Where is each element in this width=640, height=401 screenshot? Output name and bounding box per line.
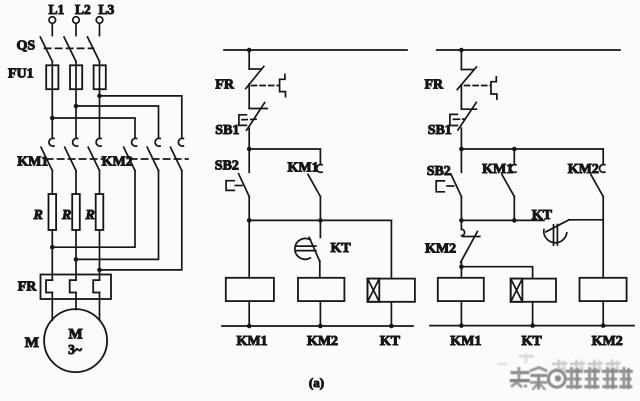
label KM1 aux contact (a) xyxy=(288,161,319,176)
label R (R3) xyxy=(85,208,95,223)
coil KT (b) with delay X box xyxy=(511,279,556,302)
wire FR to motor lead 1 xyxy=(51,293,53,321)
svg-text:SB2: SB2 xyxy=(427,164,451,179)
KM1 linkage dashed line xyxy=(47,158,105,160)
label KM2 NC contact (b) xyxy=(425,242,456,257)
junction node C (b) xyxy=(459,147,464,152)
label KM1 (main contacts) xyxy=(17,155,48,170)
svg-text:R: R xyxy=(61,208,71,223)
wire (b) KM2 NC to node E xyxy=(460,262,462,267)
label FR (thermal relay) xyxy=(18,280,38,295)
wire L2 to QS xyxy=(75,23,77,35)
watermark text (decor) xyxy=(497,353,633,390)
circuit (b) bottom rail xyxy=(430,325,634,327)
svg-text:KT: KT xyxy=(532,208,553,223)
SB2 NO pushbutton (b) xyxy=(436,174,461,197)
svg-text:SB1: SB1 xyxy=(428,123,452,138)
svg-text:SB2: SB2 xyxy=(215,159,239,174)
svg-text:KM1: KM1 xyxy=(482,162,513,177)
svg-text:KM1: KM1 xyxy=(288,161,319,176)
terminal L1 xyxy=(49,17,56,24)
wire (b) node E to KM1 coil xyxy=(460,267,462,278)
junction node D2 (b) xyxy=(512,218,517,223)
svg-text:FR: FR xyxy=(18,280,38,295)
wire (a) node B bus xyxy=(249,219,391,221)
junction (b) rail KM1 xyxy=(459,323,464,328)
wire (a) KT contact to KM2 coil xyxy=(319,261,321,278)
label KM1 coil (a) xyxy=(236,334,267,349)
wire L3 to QS xyxy=(99,23,101,35)
svg-text:KM2: KM2 xyxy=(307,334,338,349)
svg-text:KT: KT xyxy=(521,334,542,349)
wire (b) KM2 branch to coil xyxy=(602,220,604,278)
wire (b) KT coil to rail xyxy=(532,302,534,326)
wire KM1 pole3 to R3 xyxy=(99,171,101,194)
label L1 xyxy=(49,2,65,17)
svg-text:KT: KT xyxy=(380,334,401,349)
svg-text:SB1: SB1 xyxy=(215,123,239,138)
junction R1/KM2 pole4 xyxy=(50,245,55,250)
wire KM1 pole2 to R2 xyxy=(75,171,77,194)
KM1 NO auxiliary contact (b) xyxy=(502,149,516,197)
label KT contact (a) xyxy=(331,241,352,256)
svg-text:KM2: KM2 xyxy=(592,334,623,349)
wire (a) KT coil to rail xyxy=(390,302,392,326)
wire R1 to FR heater 1 xyxy=(51,230,53,280)
wire (b) KM1 coil to rail xyxy=(460,301,462,326)
KT delayed-close contact (a) xyxy=(295,237,320,261)
wire (a) SB1 to node A xyxy=(248,129,250,150)
KT delayed-close contact (b) xyxy=(544,220,569,245)
wire (a) KM1 aux to node B xyxy=(319,197,321,221)
coil KM1 (b) xyxy=(438,278,484,301)
wire feeder L1 to KM2 pole 4 xyxy=(52,118,135,138)
svg-text:KM2: KM2 xyxy=(425,242,456,257)
wire L1 to QS xyxy=(51,23,53,35)
wire KM2 pole5 to node xyxy=(76,171,159,260)
terminal L2 xyxy=(73,17,80,24)
junction (a) top rail xyxy=(247,48,252,53)
wire feeder L3 to KM2 pole 6 xyxy=(100,96,182,138)
label FU1 xyxy=(8,67,34,82)
wire (b) node C down xyxy=(460,149,462,172)
label L2 xyxy=(75,2,91,17)
junction (b) top rail xyxy=(459,48,464,53)
junction L3 feeder xyxy=(97,94,102,99)
wire (b) node D bus to KT contact xyxy=(461,219,544,221)
junction L1 feeder xyxy=(50,116,55,121)
svg-text:FR: FR xyxy=(425,78,445,93)
svg-text:KM1: KM1 xyxy=(236,334,267,349)
fuse FU1 pole 3 xyxy=(94,65,106,89)
contactor KM2 main contact pole 5 xyxy=(147,138,160,170)
SB1 NC pushbutton (b) xyxy=(450,102,477,130)
svg-text:R: R xyxy=(33,208,43,223)
svg-text:KM1: KM1 xyxy=(17,155,48,170)
wire KM2 pole4 to node xyxy=(52,171,135,248)
KM2 linkage dashed line xyxy=(131,158,189,160)
junction R2/KM2 pole5 xyxy=(74,257,79,262)
junction node D (b) xyxy=(459,218,464,223)
wire feeder L2 to KM2 pole 5 xyxy=(76,106,159,138)
label FR contact (a) xyxy=(215,78,235,93)
wire (a) node B2 to KT contact xyxy=(319,220,321,237)
label KM2 coil (a) xyxy=(307,334,338,349)
thermal relay FR heater elements xyxy=(41,275,112,300)
wire (a) node A to KM1 aux xyxy=(249,149,320,164)
wire L1 fuse to KM1 pole 1 xyxy=(51,89,53,138)
FR NC contact (b) xyxy=(457,67,476,90)
junction L2 feeder xyxy=(74,104,79,109)
label KT contact (b) xyxy=(532,208,553,223)
wire (b) SB2 to node D xyxy=(460,197,462,221)
svg-text:QS: QS xyxy=(17,39,36,54)
wire L3 fuse to KM1 pole 3 xyxy=(99,89,101,138)
wire (b) SB1 to node C xyxy=(460,128,462,149)
wire (a) bus to KT coil xyxy=(390,220,392,278)
contactor KM1 main contact pole 1 xyxy=(41,138,54,170)
wire (b) KM1 aux to node D xyxy=(513,197,515,221)
junction (a) rail KM2 xyxy=(318,324,323,329)
wire (a) node A down xyxy=(248,149,250,172)
junction node B2 (a) xyxy=(318,218,323,223)
wire (b) node D to KM2 NC xyxy=(460,220,462,229)
SB1 NC pushbutton (a) xyxy=(239,103,267,131)
wire (b) KM2 coil to rail xyxy=(602,301,604,326)
disconnect switch QS xyxy=(40,37,99,65)
FR NC contact (a) xyxy=(246,66,264,88)
junction (a) rail KT xyxy=(389,324,394,329)
circuit (b) top supply rail xyxy=(437,49,620,51)
contactor KM1 main contact pole 3 xyxy=(88,138,101,170)
junction (a) rail KM1 xyxy=(247,324,252,329)
motor M xyxy=(44,309,107,372)
svg-text:FR: FR xyxy=(215,78,235,93)
junction node E (b) xyxy=(459,264,464,269)
coil KM2 (b) xyxy=(580,278,627,301)
wire (b) KT contact to KM2 branch xyxy=(569,219,603,221)
wire (a) SB2 to node B xyxy=(248,197,250,221)
svg-text:KM2: KM2 xyxy=(568,162,599,177)
FR trip actuator symbol (b) xyxy=(465,77,497,99)
resistor R2 xyxy=(72,194,80,230)
svg-text:M: M xyxy=(25,335,39,351)
wire R3 to FR heater 3 xyxy=(99,230,101,280)
wire (b) rail to FR contact xyxy=(460,50,462,70)
wire KM1 pole1 to R1 xyxy=(51,171,53,194)
contactor KM2 main contact pole 4 xyxy=(124,138,137,170)
label SB2 (a) xyxy=(215,159,239,174)
label KM2 (main contacts) xyxy=(102,155,133,170)
contactor KM1 main contact pole 2 xyxy=(65,138,78,170)
svg-text:FU1: FU1 xyxy=(8,67,34,82)
svg-text:L2: L2 xyxy=(75,2,91,17)
coil KM1 (a) xyxy=(226,220,274,301)
wire FR to motor lead 2 xyxy=(75,293,77,310)
wire (b) node C bus xyxy=(461,148,603,150)
svg-text:M: M xyxy=(69,327,83,343)
svg-text:L1: L1 xyxy=(49,2,65,17)
label KT coil (a) xyxy=(380,334,401,349)
label FR contact (b) xyxy=(425,78,445,93)
label (a) xyxy=(309,375,324,390)
wire (b) FR to SB1 xyxy=(460,85,462,109)
circuit (a) bottom rail xyxy=(222,325,413,327)
label SB2 (b) xyxy=(427,164,451,179)
KM1 NO auxiliary contact (a) xyxy=(308,165,322,197)
svg-text:R: R xyxy=(85,208,95,223)
wire KM2 pole6 to node xyxy=(100,171,182,270)
junction node C2 (b) xyxy=(512,147,517,152)
label R (R2) xyxy=(61,208,71,223)
wire (a) rail to FR contact xyxy=(248,50,250,69)
fuse FU1 pole 2 xyxy=(70,65,82,89)
label KM2 coil (b) xyxy=(592,334,623,349)
SB2 NO pushbutton (a) xyxy=(226,174,249,197)
label KT coil (b) xyxy=(521,334,542,349)
junction (b) rail KT xyxy=(530,323,535,328)
junction (b) rail KM2 xyxy=(601,323,606,328)
circuit (a) top supply rail xyxy=(224,49,407,51)
label R (R1) xyxy=(33,208,43,223)
label L3 xyxy=(99,2,115,17)
label SB1 (a) xyxy=(215,123,239,138)
junction node A (a) xyxy=(247,147,252,152)
wire (a) KM1 coil to rail xyxy=(248,301,250,326)
svg-text:3~: 3~ xyxy=(68,342,82,357)
wire R2 to FR heater 2 xyxy=(75,230,77,280)
KM2 NC contact (b) xyxy=(461,229,480,262)
wire (a) FR to SB1 xyxy=(248,84,250,109)
contactor KM2 main contact pole 6 xyxy=(171,138,184,170)
terminal L3 xyxy=(96,17,103,24)
resistor R1 xyxy=(49,194,57,230)
coil KT (a) with delay X box xyxy=(368,279,415,302)
label KM1 coil (b) xyxy=(450,334,481,349)
label KM1 aux contact (b) xyxy=(482,162,513,177)
svg-text:(a): (a) xyxy=(309,375,324,390)
wire (b) KM2 aux down xyxy=(602,197,604,221)
resistor R3 xyxy=(96,194,104,230)
label M (motor) xyxy=(25,335,39,351)
wire L2 fuse to KM1 pole 2 xyxy=(75,89,77,138)
svg-text:L3: L3 xyxy=(99,2,115,17)
KM2 NO auxiliary contact (b) xyxy=(591,149,605,197)
wire FR to motor lead 3 xyxy=(99,293,101,321)
wire (a) KM2 coil to rail xyxy=(319,301,321,326)
label QS xyxy=(17,39,36,54)
junction R3/KM2 pole6 xyxy=(97,268,102,273)
svg-text:KM1: KM1 xyxy=(450,334,481,349)
coil KM2 (a) xyxy=(298,278,344,301)
svg-text:KT: KT xyxy=(331,241,352,256)
label KM2 aux contact (b) xyxy=(568,162,599,177)
FR trip actuator symbol (a) xyxy=(252,74,286,96)
label SB1 (b) xyxy=(428,123,452,138)
wire (b) node E to KT coil xyxy=(461,267,532,279)
junction node B (a) xyxy=(247,218,252,223)
fuse FU1 pole 1 xyxy=(46,65,58,89)
